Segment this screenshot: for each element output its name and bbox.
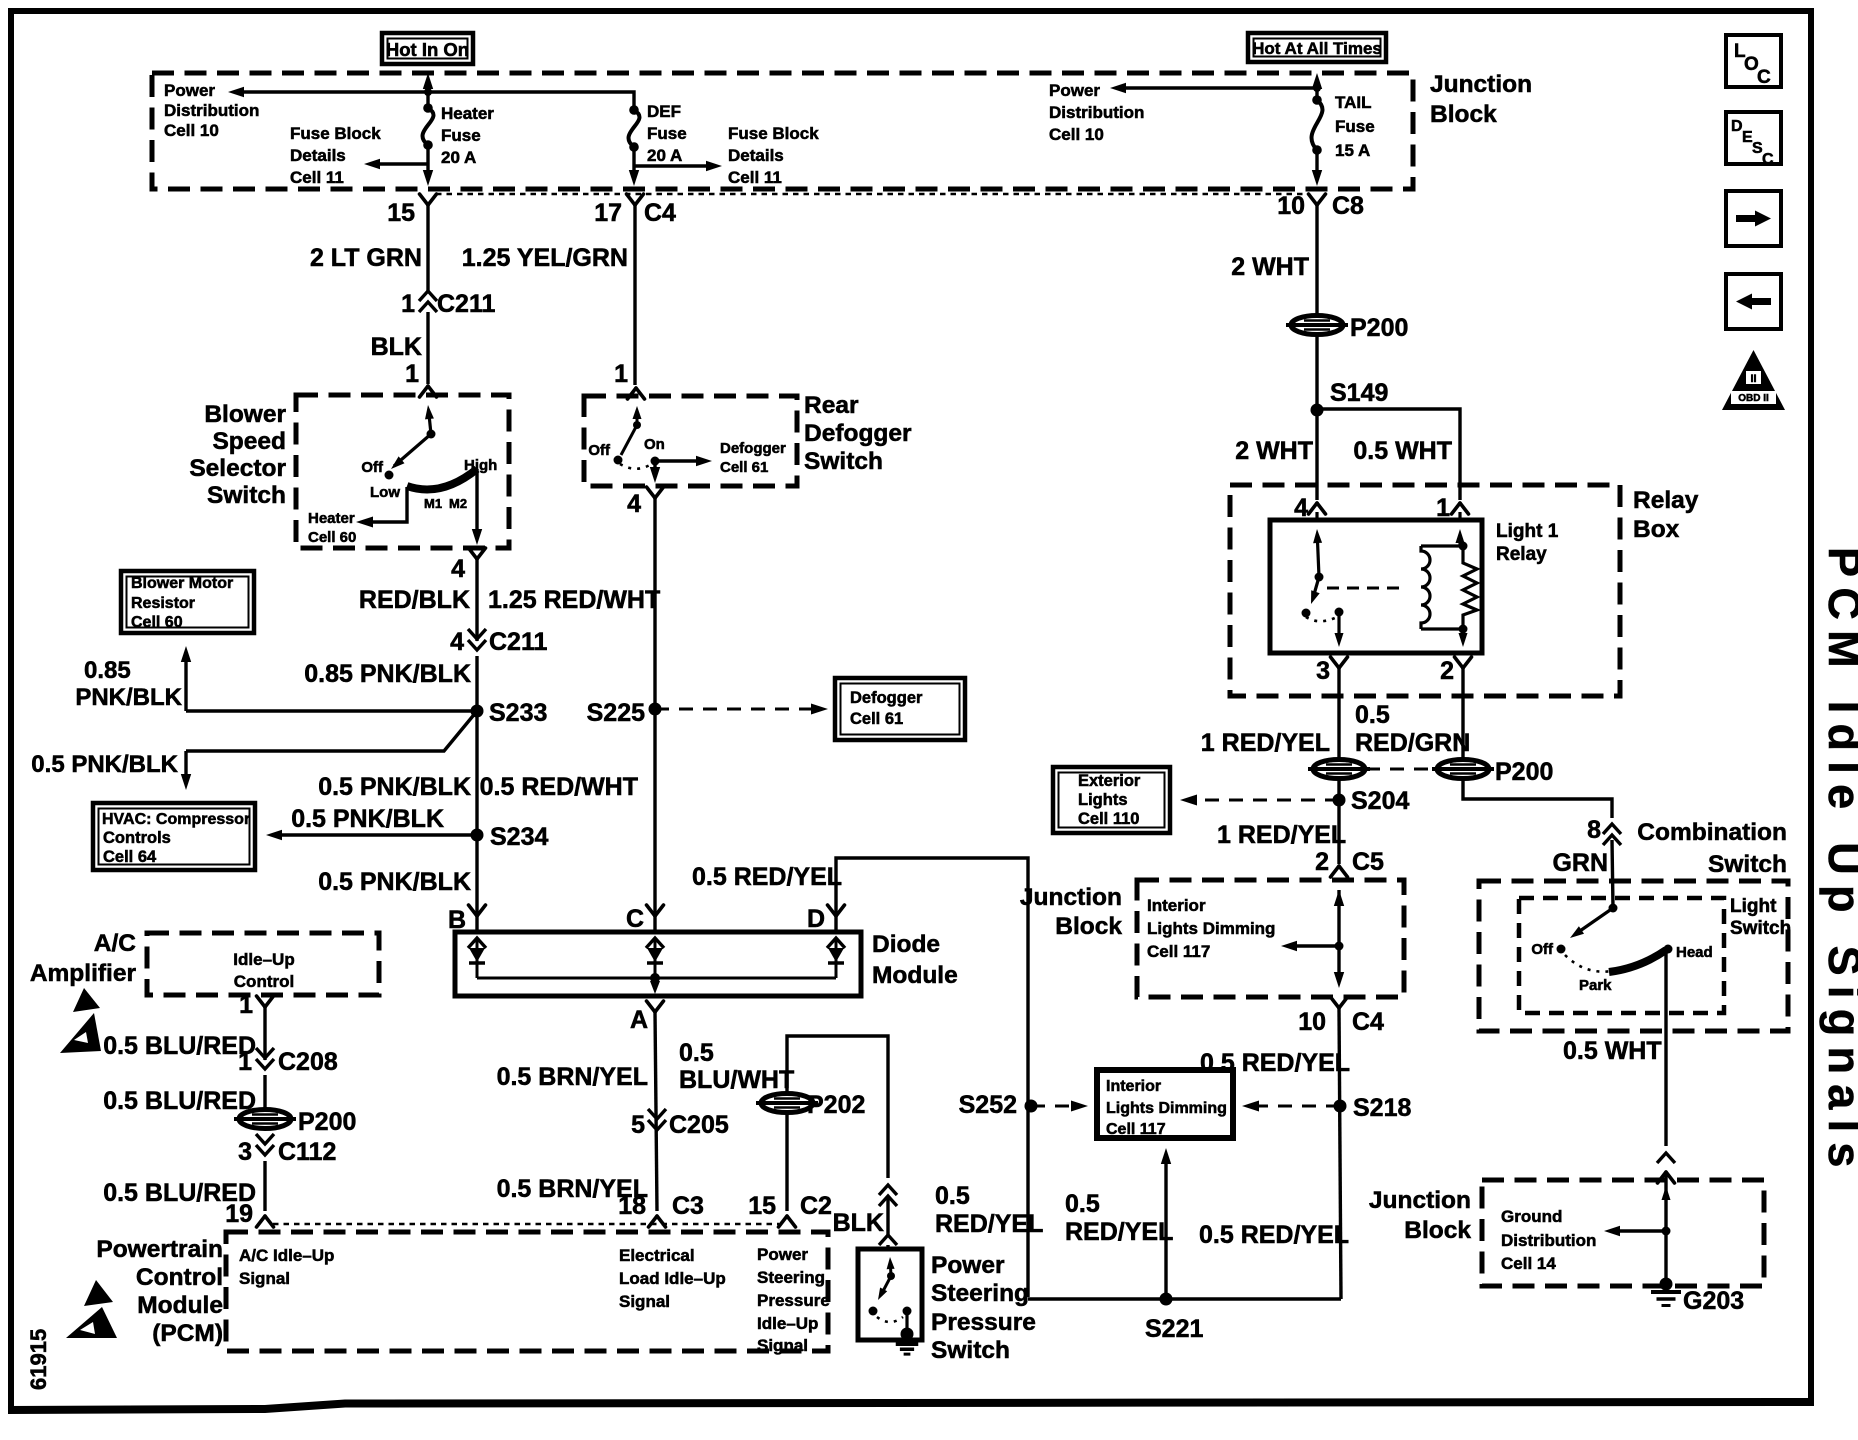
svg-text:Idle–Up: Idle–Up <box>757 1314 818 1333</box>
svg-text:Signal: Signal <box>757 1336 808 1355</box>
svg-text:1 RED/YEL: 1 RED/YEL <box>1201 729 1330 757</box>
fuse TAIL Fuse 15 A <box>1312 88 1375 160</box>
labels High Low M1 M2 <box>370 457 497 511</box>
svg-text:0.5 WHT: 0.5 WHT <box>1563 1037 1662 1065</box>
svg-text:Control: Control <box>234 972 294 991</box>
svg-text:C208: C208 <box>278 1048 338 1076</box>
connector C211 pin 4 <box>450 628 547 656</box>
pin B fork <box>448 905 486 934</box>
pin 18 C3 fork <box>618 1192 704 1227</box>
svg-text:1: 1 <box>401 290 415 318</box>
inline connector 8 GRN chevrons <box>1587 816 1621 845</box>
Exterior Lights Cell 110 box <box>1053 767 1170 833</box>
svg-text:D: D <box>1731 118 1743 135</box>
fuse DEF Fuse 20 A <box>629 102 687 165</box>
relay coil <box>1421 512 1468 634</box>
svg-text:2 LT GRN: 2 LT GRN <box>310 244 422 272</box>
svg-text:RED/YEL: RED/YEL <box>935 1210 1043 1238</box>
text Power Steering Pressure Idle-Up Signal <box>757 1245 830 1355</box>
svg-text:Block: Block <box>1430 101 1497 128</box>
node S218 <box>1334 1094 1412 1122</box>
svg-text:2 WHT: 2 WHT <box>1231 253 1309 281</box>
A-C Amplifier dashed box <box>147 933 379 995</box>
svg-text:Cell 11: Cell 11 <box>290 168 344 187</box>
wire Low branch to Heater Cell 60 <box>308 487 407 546</box>
svg-text:1: 1 <box>239 991 253 1019</box>
label Junction Block (bottom) <box>1369 1187 1471 1244</box>
svg-text:0.5 PNK/BLK: 0.5 PNK/BLK <box>31 751 178 778</box>
svg-text:0.85 PNK/BLK: 0.85 PNK/BLK <box>304 660 471 688</box>
svg-text:4: 4 <box>450 628 464 656</box>
svg-text:Power: Power <box>757 1245 808 1264</box>
svg-text:Relay: Relay <box>1633 487 1699 514</box>
svg-text:4: 4 <box>627 490 641 518</box>
Rear Defogger Switch dashed box <box>584 396 797 486</box>
svg-text:Lights: Lights <box>1078 791 1128 809</box>
Combination Switch dashed box <box>1479 881 1788 1031</box>
svg-text:C3: C3 <box>672 1192 704 1220</box>
svg-text:C211: C211 <box>489 628 547 656</box>
pin 15 connector fork <box>387 194 436 227</box>
wire S252 down to bottom rail <box>1026 1106 1029 1297</box>
svg-text:Signal: Signal <box>619 1292 670 1311</box>
svg-text:Junction: Junction <box>1430 71 1532 98</box>
svg-text:Off: Off <box>588 442 611 459</box>
label Powertrain Control Module (PCM) <box>96 1236 223 1347</box>
svg-text:Selector: Selector <box>189 455 286 482</box>
svg-text:RED/BLK: RED/BLK <box>359 586 470 614</box>
wire S234 with arrow to HVAC box <box>266 711 548 932</box>
label Rear Defogger Switch <box>804 392 912 475</box>
Junction Block dimming dashed box <box>1137 880 1404 997</box>
wire 0.5 BLU/RED 2 <box>263 1075 266 1109</box>
pressure switch contact to ground <box>877 1307 914 1341</box>
Light 1 Relay inner box <box>1270 520 1482 653</box>
pin 10 C8 connector fork <box>1277 192 1364 220</box>
svg-text:15: 15 <box>748 1192 776 1220</box>
svg-text:Fuse: Fuse <box>1335 117 1375 136</box>
svg-text:Cell 110: Cell 110 <box>1078 810 1139 828</box>
wire horizontal to Power Distribution (right) <box>1116 86 1317 89</box>
svg-text:3: 3 <box>1316 657 1330 685</box>
connector C205 pin 5 <box>631 1109 729 1139</box>
Defogger Cell 61 box <box>835 678 965 740</box>
svg-text:M1: M1 <box>424 496 442 511</box>
svg-text:Resistor: Resistor <box>131 595 195 612</box>
inline connector P200 (A/C wire) <box>234 1108 356 1136</box>
text Idle-Up Control <box>233 950 294 991</box>
diode module internal bus <box>477 973 836 983</box>
svg-text:A: A <box>630 1006 648 1034</box>
svg-text:BLK: BLK <box>371 333 422 361</box>
wire On contact out of box <box>653 461 656 477</box>
pin 19 fork into PCM <box>225 1200 273 1228</box>
svg-text:0.5 BRN/YEL: 0.5 BRN/YEL <box>497 1063 648 1091</box>
relay pin 4 fork <box>1294 494 1325 522</box>
diode at D <box>827 938 845 978</box>
wire to ground G203 <box>1604 1172 1673 1291</box>
svg-text:GRN: GRN <box>1552 849 1608 877</box>
relay pin 3 fork <box>1316 657 1347 685</box>
svg-text:0.5 RED/WHT: 0.5 RED/WHT <box>480 773 638 801</box>
svg-text:Rear: Rear <box>804 392 859 419</box>
Power Steering Pressure Switch box <box>858 1249 922 1340</box>
wire heater fuse output with arrow to connector <box>426 145 429 170</box>
wire through dimming block <box>1281 890 1344 988</box>
svg-text:Details: Details <box>728 146 784 165</box>
svg-text:Distribution: Distribution <box>1501 1231 1596 1250</box>
arrow to Fuse Block Details (left) <box>370 162 428 165</box>
connector C112 pin 3 <box>238 1134 336 1166</box>
wire 0.5 WHT from Head down <box>1664 950 1667 1146</box>
svg-text:Low: Low <box>370 484 400 501</box>
svg-text:PCM Idle Up Signals: PCM Idle Up Signals <box>1819 547 1858 1178</box>
svg-text:Cell 60: Cell 60 <box>308 529 356 546</box>
svg-text:0.5 RED/YEL: 0.5 RED/YEL <box>692 863 842 891</box>
svg-text:18: 18 <box>618 1192 646 1220</box>
dashed arrow S218 to dimming box <box>1242 1101 1340 1112</box>
wire 0.5 BLU/WHT loop to power steering switch <box>787 1036 888 1178</box>
svg-text:Steering: Steering <box>757 1268 825 1287</box>
pin 2 C5 fork <box>1315 848 1384 877</box>
diode at C <box>646 938 664 978</box>
wire relay pin2 down <box>1461 668 1464 758</box>
inline connector P202 <box>756 1091 865 1119</box>
wire BLK below chevrons <box>886 1196 889 1236</box>
svg-text:Diode: Diode <box>872 931 940 958</box>
node S233 <box>471 699 548 727</box>
svg-text:0.5 PNK/BLK: 0.5 PNK/BLK <box>291 805 444 833</box>
svg-text:Controls: Controls <box>103 829 171 847</box>
wire 0.5 RED/WHT to S225 <box>653 498 656 932</box>
label Junction Block (middle) <box>1020 884 1122 940</box>
svg-text:0.5: 0.5 <box>1355 701 1390 729</box>
svg-text:1 RED/YEL: 1 RED/YEL <box>1217 821 1346 849</box>
svg-text:C: C <box>626 905 644 933</box>
svg-text:Interior: Interior <box>1106 1078 1161 1095</box>
svg-text:S218: S218 <box>1353 1094 1411 1122</box>
svg-text:2 WHT: 2 WHT <box>1235 437 1313 465</box>
svg-text:Power: Power <box>164 81 215 100</box>
svg-text:15: 15 <box>387 199 415 227</box>
ground symbol G203 <box>1651 1287 1744 1315</box>
svg-text:1: 1 <box>238 1048 252 1076</box>
ESD symbol (A/C amplifier) <box>60 988 101 1053</box>
dotted arc Off-Park <box>1565 955 1612 972</box>
svg-text:Pressure: Pressure <box>931 1309 1036 1336</box>
label Power Steering Pressure Switch <box>931 1252 1036 1364</box>
title box Hot In On <box>382 33 473 64</box>
wire relay pin3 down <box>1337 668 1340 758</box>
wire P202 to pin 15 C2 <box>785 1113 788 1211</box>
svg-text:Cell 61: Cell 61 <box>720 459 768 476</box>
svg-text:C8: C8 <box>1332 192 1364 220</box>
svg-text:3: 3 <box>238 1138 252 1166</box>
svg-text:Light 1: Light 1 <box>1496 521 1559 542</box>
svg-text:1: 1 <box>405 360 419 388</box>
Interior Lights Dimming Cell 117 solid box <box>1097 1070 1233 1138</box>
label A/C Amplifier <box>30 930 137 987</box>
icon box right arrow <box>1726 191 1781 246</box>
svg-text:10: 10 <box>1298 1008 1326 1036</box>
svg-text:Block: Block <box>1055 913 1122 940</box>
svg-text:Electrical: Electrical <box>619 1246 695 1265</box>
svg-text:Relay: Relay <box>1496 544 1547 565</box>
svg-text:BLK: BLK <box>833 1209 884 1237</box>
label Blower Speed Selector Switch <box>189 401 286 509</box>
svg-text:Lights Dimming: Lights Dimming <box>1147 919 1275 938</box>
wire diode D to S252 loop <box>836 858 1028 1106</box>
label 0.85 PNK/BLK (left) <box>75 657 182 711</box>
svg-text:Switch: Switch <box>931 1337 1010 1364</box>
wire 0.5 BLU/RED 1 <box>263 1007 266 1060</box>
svg-text:0.5 BLU/RED: 0.5 BLU/RED <box>103 1032 256 1060</box>
wire 2 WHT upper <box>1315 205 1318 315</box>
pin 4 fork below blower box <box>451 548 485 583</box>
svg-text:Interior: Interior <box>1147 896 1206 915</box>
pin 1 fork into defogger switch <box>614 360 644 399</box>
svg-text:BLU/WHT: BLU/WHT <box>679 1066 794 1094</box>
svg-text:Cell 117: Cell 117 <box>1147 942 1210 961</box>
svg-text:Heater: Heater <box>308 510 355 527</box>
wire 0.5 RED/YEL to S218 <box>1339 1008 1341 1299</box>
dotted arc Off-On <box>620 463 653 469</box>
svg-text:Steering: Steering <box>931 1280 1029 1307</box>
connector C208 pin 1 <box>238 1048 338 1076</box>
svg-text:C211: C211 <box>437 290 495 318</box>
svg-text:0.5 PNK/BLK: 0.5 PNK/BLK <box>318 773 471 801</box>
svg-text:0.5 WHT: 0.5 WHT <box>1353 437 1452 465</box>
svg-text:Amplifier: Amplifier <box>30 960 137 987</box>
svg-text:Power: Power <box>931 1252 1005 1279</box>
svg-text:0.5 BLU/RED: 0.5 BLU/RED <box>103 1087 256 1115</box>
svg-text:1.25 YEL/GRN: 1.25 YEL/GRN <box>462 244 628 272</box>
pin D fork <box>807 905 845 933</box>
svg-text:Cell 61: Cell 61 <box>850 710 903 728</box>
text Interior Lights Dimming Cell 117 (in dashed box) <box>1147 896 1275 961</box>
svg-text:G203: G203 <box>1683 1287 1744 1315</box>
relay switch arm <box>1302 512 1344 647</box>
svg-text:Blower Motor: Blower Motor <box>131 575 233 592</box>
Powertrain Control Module dashed box <box>226 1232 828 1351</box>
On contact with arrow to Defogger Cell 61 <box>644 436 786 476</box>
wire RED/BLK <box>475 559 478 641</box>
wire 0.5 BRN/YEL from A <box>655 1012 657 1211</box>
svg-text:10: 10 <box>1277 192 1305 220</box>
svg-text:Load Idle–Up: Load Idle–Up <box>619 1269 726 1288</box>
pin 1 fork into blower switch <box>405 360 436 397</box>
wire S233 to blower motor resistor <box>181 646 477 711</box>
Junction Block ground dashed box <box>1482 1180 1764 1286</box>
svg-text:Cell 64: Cell 64 <box>103 848 157 866</box>
inline connector P200 (tail wire) <box>1286 314 1408 342</box>
svg-text:5: 5 <box>631 1111 645 1139</box>
pin 15 C2 fork <box>748 1192 832 1227</box>
svg-text:S149: S149 <box>1330 379 1388 407</box>
svg-text:Off: Off <box>1531 941 1554 958</box>
svg-text:Fuse: Fuse <box>647 124 687 143</box>
wire DEF fuse output with arrow <box>632 147 635 170</box>
svg-text:Switch: Switch <box>804 448 883 475</box>
label Combination Switch <box>1637 819 1787 878</box>
svg-text:Idle–Up: Idle–Up <box>233 950 294 969</box>
svg-text:Box: Box <box>1633 516 1680 543</box>
text Ground Distribution Cell 14 <box>1501 1207 1596 1273</box>
svg-text:Fuse Block: Fuse Block <box>290 124 381 143</box>
svg-text:0.5: 0.5 <box>679 1039 714 1067</box>
svg-text:S221: S221 <box>1145 1315 1203 1343</box>
dashed arrow S225 to Defogger Cell 61 box <box>655 704 828 715</box>
svg-text:A/C Idle–Up: A/C Idle–Up <box>239 1246 334 1265</box>
ESD symbol (PCM) <box>66 1280 117 1338</box>
svg-text:Cell 11: Cell 11 <box>728 168 782 187</box>
Light Switch inner dashed box <box>1519 898 1724 1013</box>
node S252 with dashed arrow <box>959 1091 1088 1119</box>
svg-text:S225: S225 <box>587 699 645 727</box>
relay pin 1 fork <box>1436 494 1468 522</box>
svg-text:1.25 RED/WHT: 1.25 RED/WHT <box>488 586 660 614</box>
svg-text:OBD II: OBD II <box>1738 393 1769 404</box>
wire TAIL fuse output arrow <box>1315 150 1318 170</box>
svg-text:Hot At All Times: Hot At All Times <box>1252 39 1382 58</box>
relay resistor <box>1459 546 1478 647</box>
svg-text:20 A: 20 A <box>441 148 476 167</box>
svg-text:Power: Power <box>1049 81 1100 100</box>
pin 4 fork below defogger box <box>627 487 663 518</box>
bottom rail wire <box>1028 1297 1341 1300</box>
module output to A <box>650 978 660 994</box>
svg-text:Hot In On: Hot In On <box>386 39 469 60</box>
svg-text:C205: C205 <box>669 1111 729 1139</box>
pin 17 C4 connector fork <box>594 194 676 227</box>
svg-text:S233: S233 <box>489 699 547 727</box>
Blower Motor Resistor Cell 60 box <box>121 571 254 633</box>
svg-text:Heater: Heater <box>441 104 494 123</box>
pin 1 fork below A/C box <box>239 991 273 1019</box>
svg-text:Details: Details <box>290 146 346 165</box>
svg-text:Junction: Junction <box>1369 1187 1471 1214</box>
svg-text:61915: 61915 <box>26 1329 51 1390</box>
HVAC Compressor Controls Cell 64 box <box>93 803 255 870</box>
pin C fork <box>626 905 664 933</box>
svg-text:Cell 60: Cell 60 <box>131 614 183 631</box>
ground symbol below pressure switch <box>896 1342 919 1346</box>
svg-text:Blower: Blower <box>204 401 286 428</box>
svg-text:Distribution: Distribution <box>164 101 259 120</box>
fork into ground block <box>1658 1172 1667 1183</box>
svg-text:0.5: 0.5 <box>1065 1190 1100 1218</box>
svg-text:S252: S252 <box>959 1091 1017 1119</box>
wire 2 LT GRN <box>426 205 429 292</box>
thick contact arc Low to High <box>407 469 477 490</box>
svg-text:Fuse Block: Fuse Block <box>728 124 819 143</box>
fuse Heater Fuse 20 A <box>423 92 495 167</box>
svg-text:1: 1 <box>614 360 628 388</box>
labels 1 RED/YEL and 0.5 RED/GRN <box>1201 701 1471 757</box>
svg-text:Head: Head <box>1676 944 1713 961</box>
svg-text:RED/GRN: RED/GRN <box>1355 729 1470 757</box>
svg-text:A/C: A/C <box>94 930 137 957</box>
arrow to Fuse Block Details (right) <box>634 164 716 167</box>
svg-text:C5: C5 <box>1352 848 1384 876</box>
svg-text:Switch: Switch <box>1730 918 1791 939</box>
svg-text:Ground: Ground <box>1501 1207 1562 1226</box>
svg-text:HVAC: Compressor: HVAC: Compressor <box>102 811 250 828</box>
svg-text:PNK/BLK: PNK/BLK <box>75 684 182 711</box>
thick contact arc Park to Head <box>1609 950 1666 972</box>
svg-text:Cell 10: Cell 10 <box>1049 125 1104 144</box>
svg-text:P200: P200 <box>298 1108 356 1136</box>
svg-text:D: D <box>807 905 825 933</box>
svg-text:Switch: Switch <box>207 482 286 509</box>
svg-text:On: On <box>644 436 665 453</box>
svg-text:Defogger: Defogger <box>850 689 923 707</box>
wire BLK <box>426 312 429 384</box>
connector C211 pin 1 <box>401 290 495 318</box>
relay pin 2 fork <box>1440 657 1471 685</box>
wire 0.85 PNK/BLK <box>475 656 478 711</box>
svg-text:2: 2 <box>1315 848 1329 876</box>
svg-text:C4: C4 <box>1352 1008 1384 1036</box>
svg-text:Combination: Combination <box>1637 819 1787 846</box>
svg-text:C: C <box>1762 151 1774 168</box>
svg-text:C2: C2 <box>800 1192 832 1220</box>
text Electrical Load Idle-Up Signal <box>619 1246 726 1311</box>
diode at B <box>468 938 486 978</box>
svg-text:S234: S234 <box>490 823 548 851</box>
wire 1.25 YEL/GRN <box>633 205 636 385</box>
label 0.5 RED/YEL right of BLK <box>935 1182 1043 1238</box>
text A/C Idle-Up Signal <box>239 1246 334 1288</box>
svg-text:15 A: 15 A <box>1335 141 1370 160</box>
svg-text:20 A: 20 A <box>647 146 682 165</box>
svg-text:Module: Module <box>872 962 958 989</box>
svg-text:Light: Light <box>1730 896 1777 917</box>
pin 10 C4 fork <box>1298 997 1384 1036</box>
inline connector P200 pair <box>1308 758 1553 786</box>
wire 0.5 BLU/RED 3 <box>263 1161 266 1211</box>
svg-text:C112: C112 <box>278 1138 336 1166</box>
pin A fork <box>630 1001 664 1034</box>
svg-text:19: 19 <box>225 1200 253 1228</box>
svg-text:(PCM): (PCM) <box>152 1320 223 1347</box>
svg-text:Fuse: Fuse <box>441 126 481 145</box>
svg-text:0.5 PNK/BLK: 0.5 PNK/BLK <box>318 868 471 896</box>
svg-text:Control: Control <box>136 1264 223 1291</box>
wire P200 right to combination switch <box>1463 779 1612 818</box>
svg-text:Lights Dimming: Lights Dimming <box>1106 1100 1227 1117</box>
node S225 <box>587 699 662 727</box>
svg-text:2: 2 <box>1440 657 1454 685</box>
svg-text:S204: S204 <box>1351 787 1409 815</box>
connector chevron above ground block <box>1657 1153 1675 1163</box>
svg-text:Defogger: Defogger <box>720 440 786 457</box>
wire 2 WHT to relay pin 4 <box>1315 410 1318 500</box>
wire BLK into pressure switch <box>886 1245 889 1251</box>
wire branch S149 to relay pin 1 <box>1317 409 1460 500</box>
icon box LOC <box>1726 35 1781 88</box>
title box Hot At All Times <box>1248 33 1386 62</box>
svg-text:0.5 RED/YEL: 0.5 RED/YEL <box>1199 1221 1349 1249</box>
wire S233 diagonal to HVAC arrow <box>181 711 477 790</box>
svg-text:Cell 10: Cell 10 <box>164 121 219 140</box>
dashed arrow S204 to Exterior Lights <box>1180 795 1339 806</box>
svg-text:Distribution: Distribution <box>1049 103 1144 122</box>
fine connector dotted line of PCM <box>273 1223 779 1226</box>
svg-text:4: 4 <box>451 555 465 583</box>
svg-text:C4: C4 <box>644 199 676 227</box>
wire GRN into light switch <box>1612 840 1613 908</box>
